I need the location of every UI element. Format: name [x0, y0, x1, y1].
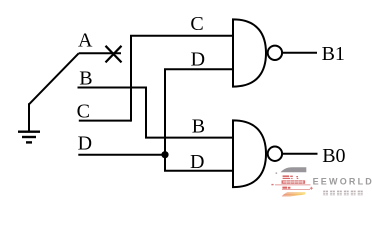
- wire ground riser: [28, 103, 30, 131]
- logo red text row 1: [283, 175, 299, 179]
- NAND gate U2 bubble: [268, 147, 282, 161]
- svg-text:B0: B0: [322, 145, 345, 167]
- wire D to bottom gate input: [164, 170, 233, 172]
- wire A horizontal: [79, 52, 121, 54]
- logo gray dot: [276, 172, 278, 174]
- logo red bar: [282, 180, 306, 184]
- NAND gate U1 body: [233, 19, 266, 86]
- svg-text:D: D: [78, 132, 92, 154]
- wire output B0: [283, 153, 318, 155]
- logo red plus: [310, 187, 313, 190]
- svg-text:D: D: [191, 49, 205, 71]
- logo chinese subtitle: [323, 191, 363, 196]
- ground: [18, 132, 40, 143]
- logo orange swoosh: [282, 192, 306, 196]
- wire B riser: [145, 87, 147, 138]
- wire C horizontal: [79, 120, 131, 122]
- wire C riser: [130, 36, 132, 122]
- NAND gate U2 body: [233, 120, 266, 187]
- logo red text row 2: [282, 187, 290, 189]
- wire output B1: [283, 52, 317, 54]
- wire C to gate input: [130, 35, 233, 37]
- svg-text:B1: B1: [322, 43, 345, 65]
- wire D horizontal: [78, 154, 165, 156]
- wire B horizontal: [78, 87, 147, 89]
- wire B to gate input: [145, 137, 233, 139]
- svg-text:D: D: [190, 151, 204, 173]
- junction dot: [161, 151, 168, 158]
- NAND gate U1 bubble: [268, 46, 282, 60]
- svg-text:A: A: [78, 29, 93, 51]
- svg-text:C: C: [77, 100, 90, 122]
- logo thin red line 2: [282, 188, 310, 191]
- EEWORLD logo e-icon gray swoosh: [281, 167, 307, 172]
- wire D to top gate input: [164, 68, 233, 70]
- wire D riser: [164, 69, 166, 171]
- logo thin red line 1: [275, 183, 311, 186]
- wire diagonal from A to ground: [29, 53, 79, 104]
- svg-text:C: C: [190, 13, 203, 35]
- svg-text:B: B: [79, 68, 92, 90]
- svg-text:B: B: [192, 115, 205, 137]
- svg-text:EEWORLD: EEWORLD: [313, 177, 372, 187]
- break mark X on wire A: [106, 46, 122, 63]
